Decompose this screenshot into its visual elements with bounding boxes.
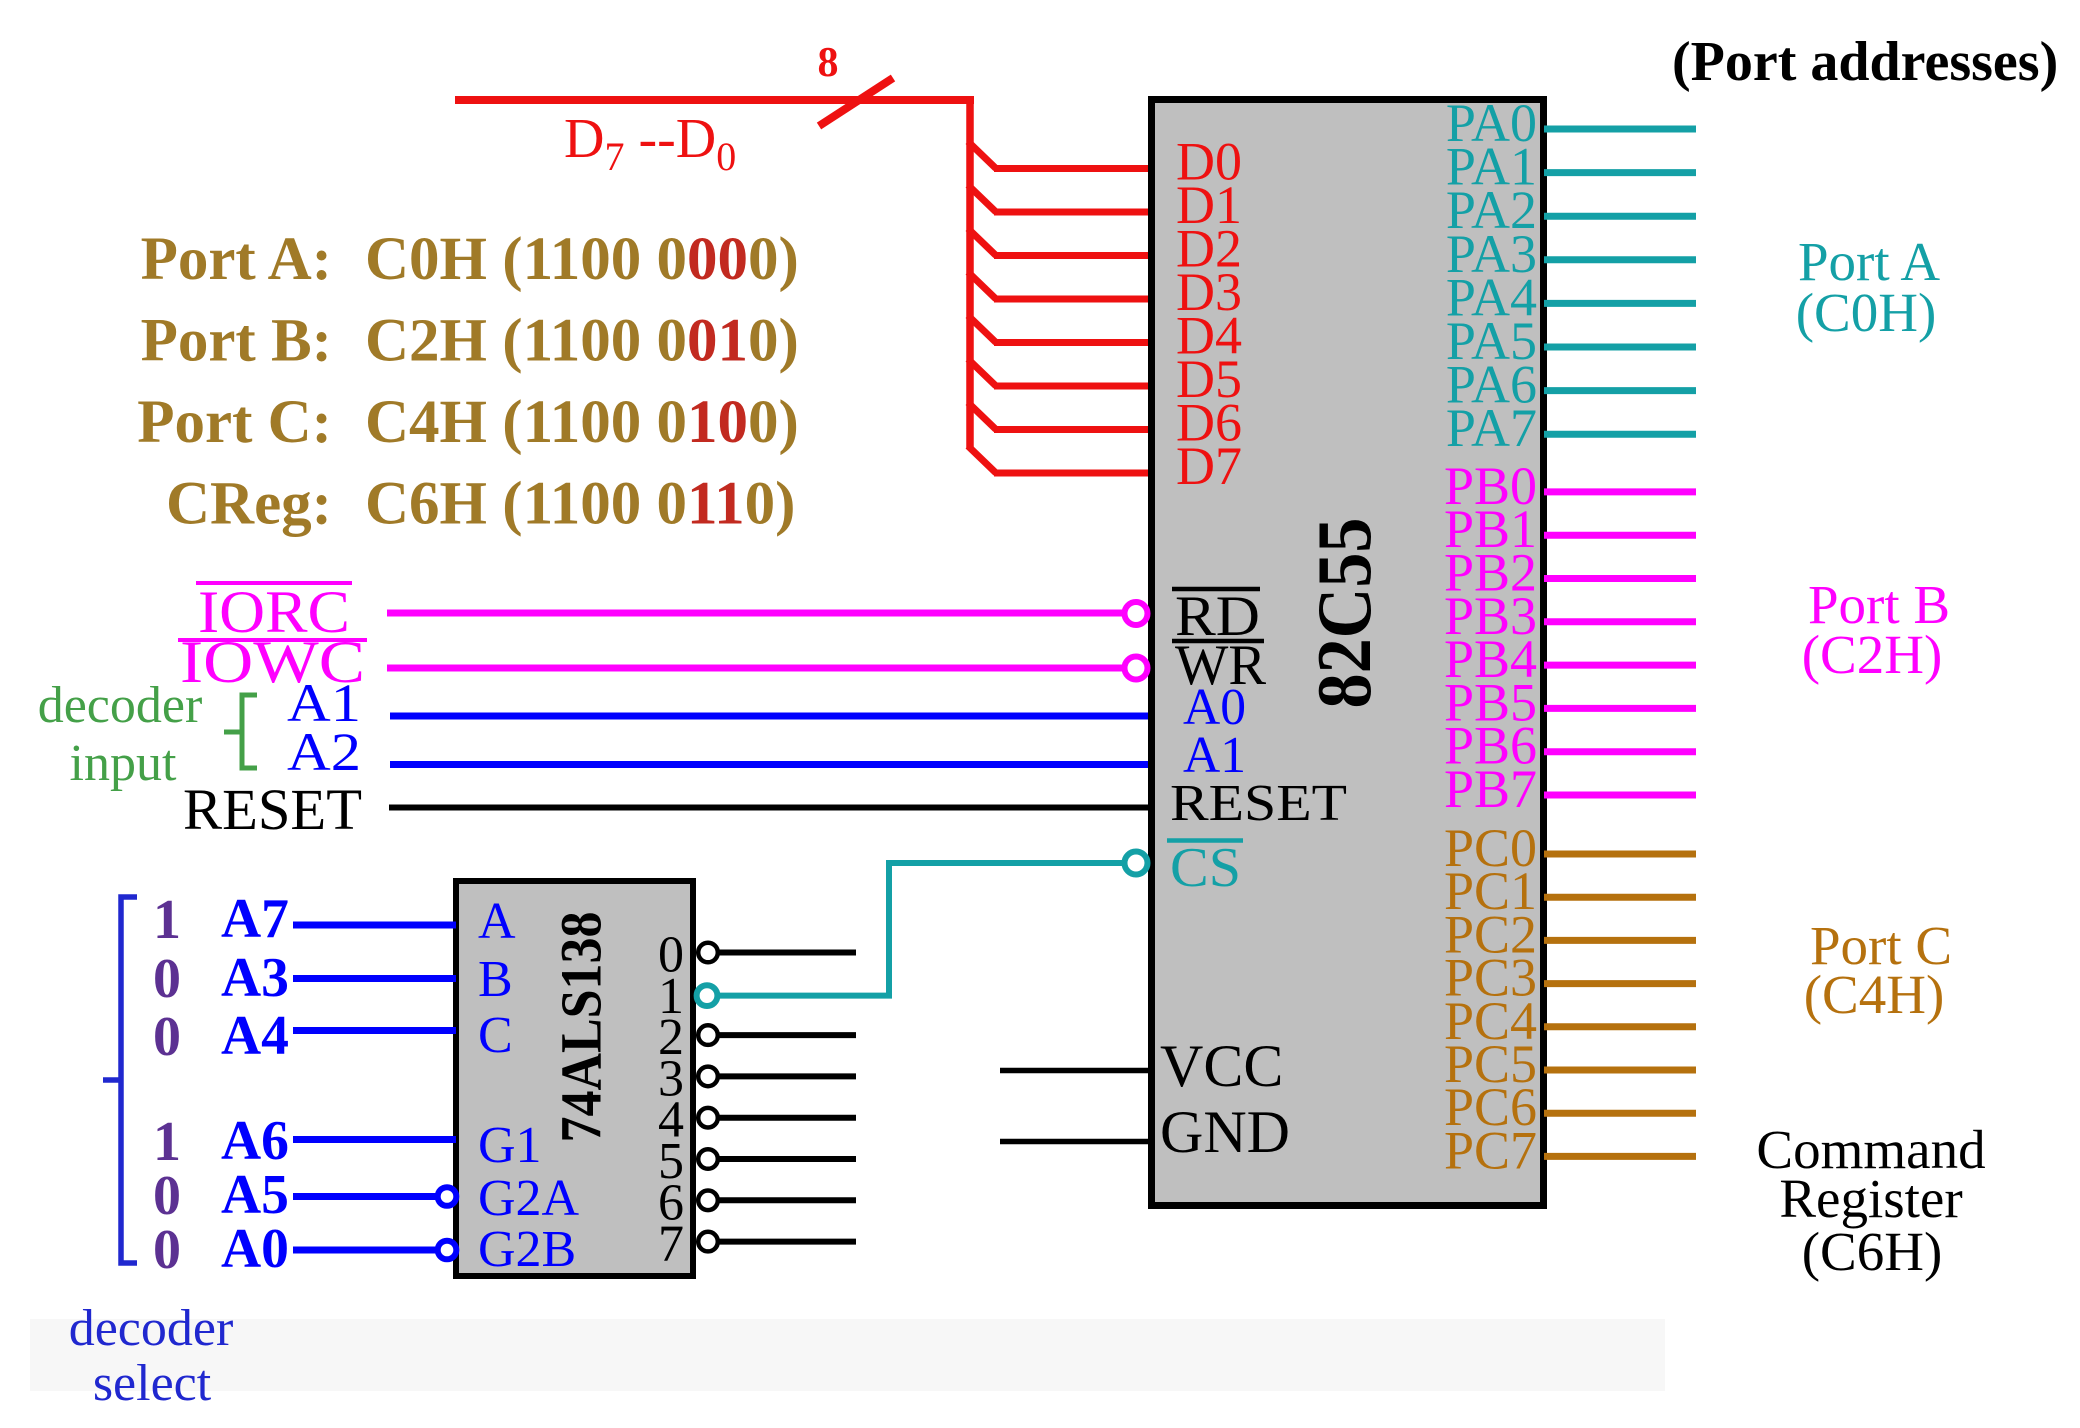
- svg-text:0: 0: [153, 1006, 181, 1068]
- wire RESET: [389, 805, 1151, 811]
- svg-text:A5: A5: [221, 1164, 289, 1226]
- svg-text:74ALS138: 74ALS138: [549, 912, 614, 1143]
- svg-text:C: C: [478, 1007, 513, 1064]
- wire: decoder output 2 stub: [719, 1032, 856, 1038]
- decoder output 1 bubble (teal): [697, 985, 718, 1006]
- svg-text:A: A: [478, 893, 516, 950]
- svg-text:(C4H): (C4H): [1804, 964, 1945, 1025]
- wire: D7 branch: [968, 446, 996, 473]
- svg-text:0: 0: [153, 1165, 181, 1227]
- svg-text:CReg:: CReg:: [166, 471, 332, 538]
- decoder output 2 bubble: [698, 1025, 718, 1045]
- wire A5 to decoder: [293, 1193, 436, 1200]
- svg-text:A0: A0: [221, 1218, 289, 1280]
- wire: D2 branch: [968, 229, 996, 256]
- svg-text:RESET: RESET: [183, 777, 362, 842]
- wire: D bus horizontal top: [455, 96, 974, 104]
- decoder output 4 bubble: [698, 1108, 718, 1128]
- decoder output 5 bubble: [698, 1149, 718, 1169]
- decoder output 6 bubble: [698, 1191, 718, 1211]
- wire: decoder output 6 stub: [719, 1197, 856, 1203]
- bubble G2A: [438, 1187, 457, 1206]
- wire A2 to A1 pin: [390, 761, 1151, 768]
- svg-text:C0H (1100 0000): C0H (1100 0000): [365, 226, 799, 293]
- svg-text:0: 0: [153, 1219, 181, 1281]
- wire A7 to decoder: [293, 922, 456, 929]
- wire A0 to decoder: [293, 1247, 436, 1254]
- svg-text:G1: G1: [478, 1117, 542, 1174]
- svg-text:A4: A4: [221, 1005, 289, 1067]
- svg-text:Port B:: Port B:: [141, 308, 332, 375]
- wire: D0 branch: [968, 142, 996, 169]
- wire GND: [1000, 1139, 1151, 1145]
- wire VCC: [1000, 1068, 1151, 1074]
- svg-text:PA7: PA7: [1446, 398, 1537, 458]
- wire A3 to decoder: [293, 975, 456, 982]
- svg-text:(Port addresses): (Port addresses): [1672, 31, 2058, 93]
- svg-text:A2: A2: [287, 722, 361, 782]
- wire: D4 branch: [968, 316, 996, 343]
- decoder output 7 bubble: [698, 1232, 718, 1252]
- svg-text:A6: A6: [221, 1110, 289, 1172]
- wire A1 to A0 pin: [390, 713, 1151, 720]
- svg-text:RESET: RESET: [1170, 775, 1347, 832]
- wire: D5 branch: [968, 359, 996, 386]
- bus width slash mark: [819, 78, 893, 126]
- svg-text:GND: GND: [1160, 1099, 1290, 1165]
- wire: decoder output 0 stub: [719, 950, 856, 956]
- wire: D3 branch: [968, 272, 996, 299]
- svg-text:A3: A3: [221, 947, 289, 1009]
- decorative faint band: [30, 1319, 1665, 1391]
- wire: decoder output 4 stub: [719, 1115, 856, 1121]
- svg-text:82C55: 82C55: [1301, 518, 1387, 709]
- svg-text:decoder: decoder: [38, 677, 203, 734]
- wire: D1 branch: [968, 185, 996, 212]
- wire: decoder output 7 stub: [719, 1239, 856, 1245]
- svg-text:CS: CS: [1170, 837, 1241, 899]
- svg-text:C4H (1100 0100): C4H (1100 0100): [365, 389, 799, 456]
- wire: D bus vertical trunk: [966, 97, 974, 449]
- svg-text:C6H (1100 0110): C6H (1100 0110): [365, 471, 795, 538]
- svg-text:Port A:: Port A:: [141, 226, 332, 293]
- svg-text:D7: D7: [1176, 436, 1242, 496]
- svg-text:0: 0: [153, 948, 181, 1010]
- svg-text:D7 --D0: D7 --D0: [564, 108, 736, 179]
- wire: decoder output 1 to CS (teal): [719, 863, 1125, 996]
- svg-text:(C2H): (C2H): [1802, 624, 1943, 685]
- svg-text:8: 8: [818, 40, 839, 86]
- svg-text:G2B: G2B: [478, 1221, 576, 1278]
- wire IORC to RD: [387, 610, 1125, 617]
- svg-text:decoder: decoder: [69, 1300, 234, 1357]
- svg-text:(C6H): (C6H): [1802, 1221, 1943, 1282]
- svg-text:7: 7: [658, 1216, 684, 1273]
- svg-text:C2H (1100 0010): C2H (1100 0010): [365, 308, 799, 375]
- svg-text:VCC: VCC: [1160, 1033, 1283, 1099]
- bracket: decoder select group: [103, 897, 137, 1263]
- svg-text:PB7: PB7: [1444, 759, 1537, 819]
- decoder output 3 bubble: [698, 1067, 718, 1087]
- svg-text:PC7: PC7: [1444, 1120, 1537, 1180]
- svg-text:B: B: [478, 951, 513, 1008]
- IC U2 74ALS138 body: [456, 881, 693, 1276]
- svg-text:G2A: G2A: [478, 1170, 580, 1227]
- svg-text:A7: A7: [221, 888, 289, 950]
- wire A6 to decoder: [293, 1136, 456, 1143]
- IC U1 82C55 body: [1152, 100, 1544, 1206]
- wire IOWC to WR: [387, 665, 1125, 672]
- svg-text:(C0H): (C0H): [1796, 282, 1937, 343]
- svg-text:select: select: [93, 1355, 212, 1412]
- brace for decoder input: [224, 695, 257, 768]
- svg-text:1: 1: [153, 1111, 181, 1173]
- svg-text:input: input: [70, 735, 177, 792]
- svg-text:1: 1: [153, 889, 181, 951]
- wire: decoder output 5 stub: [719, 1156, 856, 1162]
- svg-text:Port C:: Port C:: [137, 389, 332, 456]
- wire: decoder output 3 stub: [719, 1073, 856, 1079]
- wire: D6 branch: [968, 403, 996, 430]
- decoder output 0 bubble: [698, 943, 718, 963]
- svg-text:Register: Register: [1779, 1168, 1962, 1229]
- wire A4 to decoder: [293, 1027, 456, 1034]
- bubble G2B: [438, 1241, 457, 1260]
